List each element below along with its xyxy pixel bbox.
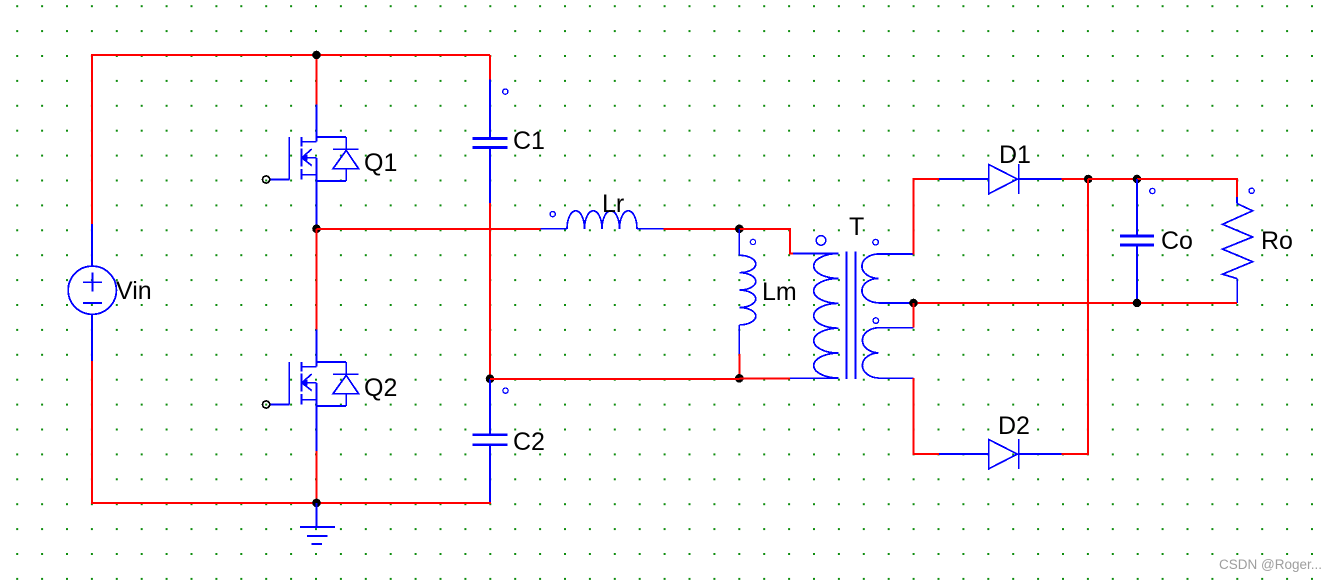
wire D2 to link corner (1062, 453, 1090, 455)
capacitor Co (1120, 179, 1154, 303)
transistor Q2 (263, 330, 359, 453)
diode D1 (939, 164, 1062, 194)
wire D1 to output node (1062, 178, 1089, 180)
diode D2 (939, 439, 1062, 469)
wire capacitor midpoint rail to transformer (490, 377, 790, 380)
svg-text:Lr: Lr (602, 190, 624, 218)
junction ground node (312, 499, 321, 508)
svg-text:C2: C2 (513, 428, 545, 456)
wire left rail upper (91, 54, 93, 224)
junction transformer center tap (909, 299, 918, 308)
resistor Ro (1223, 197, 1253, 303)
wire Co top to Ro corner (1137, 179, 1237, 198)
junction D1 output (1084, 175, 1093, 184)
wire bottom rail (91, 502, 491, 504)
wire Lm node to primary top (739, 229, 794, 254)
wire top rail corner down to C1 (489, 55, 491, 80)
svg-text:Co: Co (1161, 227, 1193, 255)
svg-text:D1: D1 (999, 141, 1031, 169)
wire output node to Co top (1088, 178, 1137, 180)
wire D1 output down to D2 (1087, 179, 1089, 454)
svg-text:Lm: Lm (762, 278, 797, 306)
svg-text:D2: D2 (998, 412, 1030, 440)
wire left rail lower (91, 361, 93, 504)
ground (300, 503, 335, 544)
svg-text:T: T (849, 213, 864, 241)
wire C1 to capacitor midpoint (489, 203, 491, 379)
junction Co top (1133, 175, 1142, 184)
svg-text:Vin: Vin (116, 277, 152, 305)
junction Lm bottom (735, 374, 744, 383)
wire Lm bottom lead (738, 354, 740, 378)
wire secondary top to D1 (914, 179, 940, 255)
svg-text:Q1: Q1 (364, 149, 397, 177)
junction Lm top (735, 225, 744, 234)
voltage source Vin (68, 224, 116, 361)
pin marker C2 (503, 388, 508, 393)
pin marker Lm (750, 239, 755, 244)
wire Q1 drain stub from top rail (316, 55, 318, 105)
transformer T (790, 251, 914, 378)
wire center tap to lower winding (913, 303, 915, 328)
pin marker Ro (1249, 188, 1254, 193)
wire output return rail (914, 302, 1238, 304)
junction top rail (312, 51, 321, 60)
pin marker C1 (503, 89, 508, 94)
inductor Lr (541, 211, 664, 229)
junction Co bottom (1133, 299, 1142, 308)
svg-text:Ro: Ro (1261, 227, 1293, 255)
svg-text:C1: C1 (513, 127, 545, 155)
wire secondary bottom to D2 (914, 378, 940, 454)
pin marker T primary (816, 236, 826, 246)
capacitor C2 (473, 379, 508, 502)
wire Q2 drain from switch node (316, 229, 318, 330)
transistor Q1 (263, 105, 359, 228)
pin marker T secondary upper (873, 239, 879, 245)
wire Q2 source to ground node (316, 451, 318, 503)
junction mid switch node (312, 225, 321, 234)
pin marker Lr (550, 212, 555, 217)
capacitor C1 (473, 80, 508, 204)
svg-text:CSDN @Roger...: CSDN @Roger... (1219, 557, 1322, 572)
pin marker T secondary lower (873, 318, 879, 324)
inductor Lm (739, 229, 756, 355)
wire mid rail to Lr (317, 228, 541, 230)
junction capacitor midpoint (486, 375, 495, 384)
wire top rail (92, 54, 490, 56)
svg-text:Q2: Q2 (364, 374, 397, 402)
wire Lr to Lm node (664, 228, 740, 230)
pin marker Co (1150, 188, 1155, 193)
